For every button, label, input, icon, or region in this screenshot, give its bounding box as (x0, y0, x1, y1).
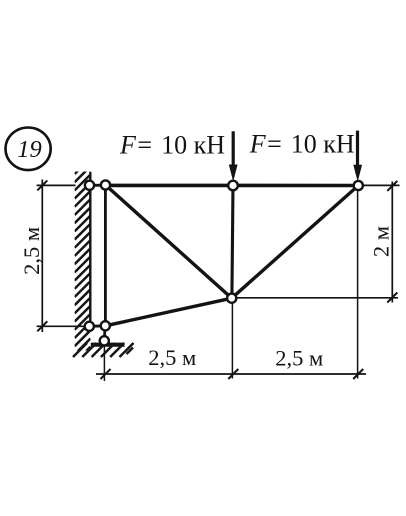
force arrow F1 (229, 131, 238, 181)
member link G-F (89, 324, 105, 327)
label 2 m right (rotated) (368, 226, 393, 257)
extension line below node E (231, 303, 233, 379)
wall face line (89, 172, 91, 330)
extension line from node E to right (236, 297, 398, 299)
node F pin circle (101, 321, 110, 330)
extension line top-right (chord extension) (359, 184, 400, 186)
problem number circle 19 (6, 128, 51, 171)
label 2,5 m left (rotated) (19, 227, 44, 275)
label 2,5 m bottom-right span (275, 345, 323, 370)
svg-text:F= 10 кН: F= 10 кН (119, 131, 225, 160)
member diagonal D-E (232, 186, 359, 299)
dimension line bottom (96, 369, 366, 379)
extension line below support F (103, 346, 105, 381)
node H pin circle (100, 336, 109, 345)
extension line bottom-left (37, 325, 86, 327)
member top chord B-C-D (103, 184, 359, 188)
svg-text:2 м: 2 м (368, 226, 393, 257)
svg-text:2,5 м: 2,5 м (148, 345, 196, 370)
dimension line right 2 m (387, 181, 397, 303)
dimension line left 2,5 m (37, 180, 47, 333)
node A pin circle (85, 181, 94, 190)
svg-text:2,5 м: 2,5 м (275, 345, 323, 370)
svg-text:19: 19 (17, 136, 42, 163)
extension line top-left (37, 184, 76, 186)
support base hatching (73, 343, 134, 357)
node B pin circle (101, 180, 110, 189)
label 2,5 m bottom-left span (148, 345, 196, 370)
label F = 10 kN (first) (119, 131, 225, 160)
svg-text:F= 10 кН: F= 10 кН (249, 130, 355, 159)
node G pin circle (85, 322, 94, 331)
member left vertical B-F (104, 185, 107, 326)
member link F-H (103, 326, 106, 341)
force arrow F2 (353, 131, 362, 182)
node C pin circle (228, 181, 238, 191)
extension line below node D (357, 190, 359, 379)
member middle vertical C-E (232, 186, 233, 299)
member diagonal B-E (106, 185, 232, 298)
svg-text:2,5 м: 2,5 м (19, 227, 44, 275)
member link A-B (90, 184, 106, 187)
node E pin circle (227, 294, 236, 303)
wall hatching (75, 158, 91, 363)
member bottom chord F-E (105, 298, 231, 326)
support base line (91, 343, 125, 347)
node D pin circle (354, 181, 363, 190)
label F = 10 kN (second) (249, 130, 355, 159)
